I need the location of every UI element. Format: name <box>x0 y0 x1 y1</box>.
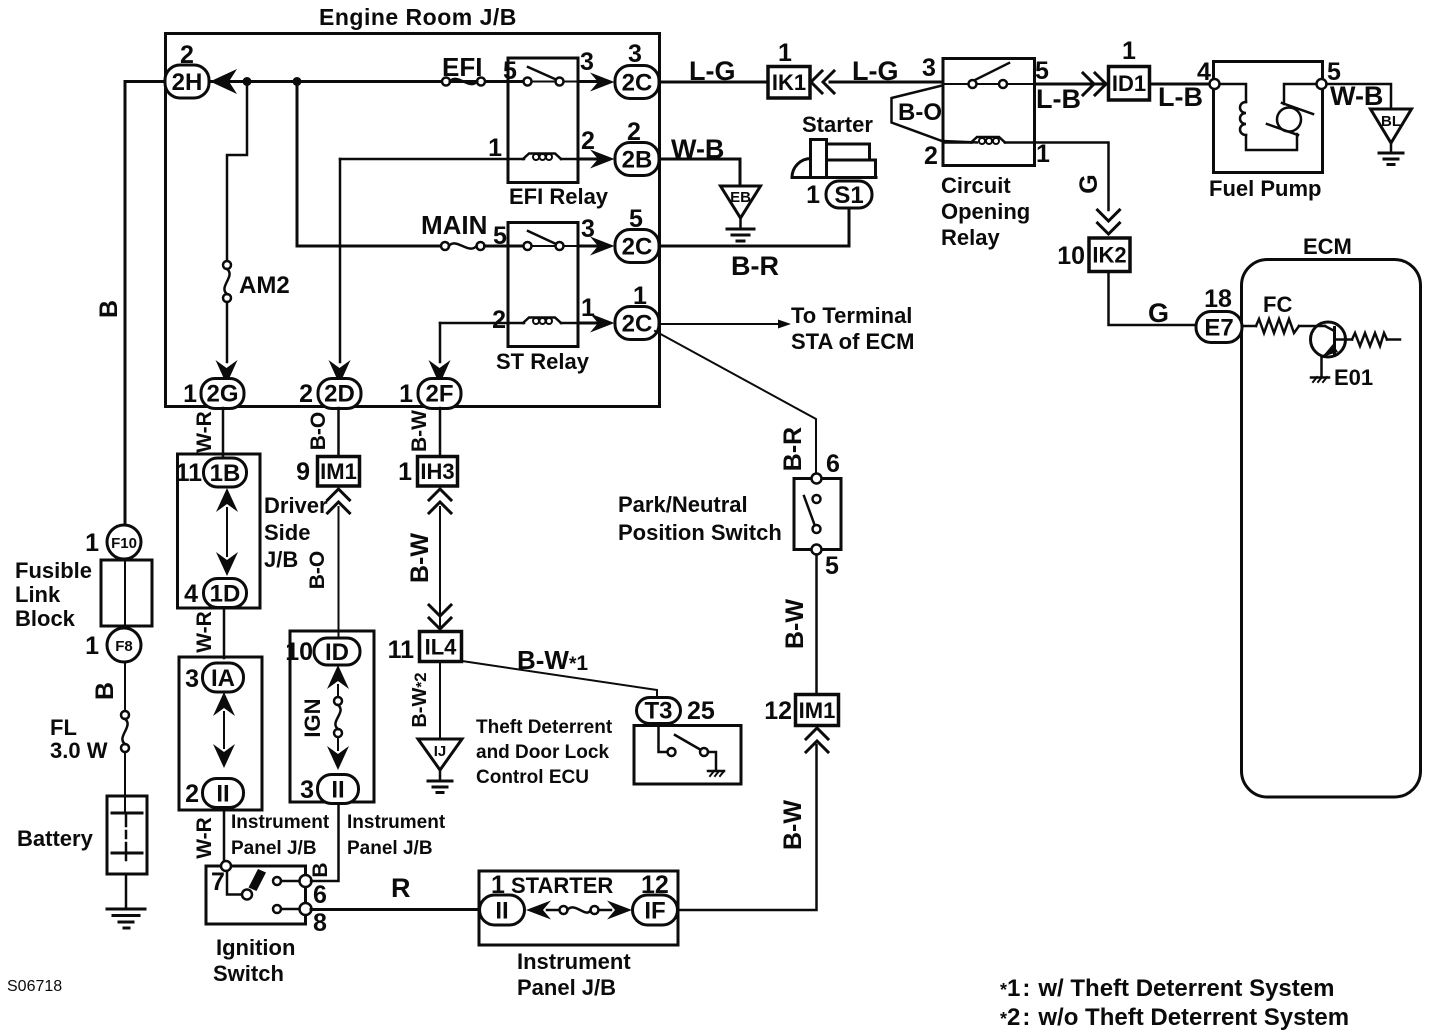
fuse MAIN <box>441 242 449 250</box>
wire G: IK2 to E7 <box>1109 272 1197 326</box>
connector ID1 <box>1109 67 1150 101</box>
svg-text:Position Switch: Position Switch <box>618 520 782 545</box>
pin 5 circle <box>1317 79 1327 89</box>
svg-text:1B: 1B <box>210 460 241 487</box>
svg-text:Circuit: Circuit <box>941 173 1011 198</box>
arrow into 2C <box>590 73 615 92</box>
svg-text:3: 3 <box>628 40 642 68</box>
ground (battery) <box>107 908 145 911</box>
svg-text:2F: 2F <box>425 381 453 408</box>
connector E7 <box>1196 312 1242 343</box>
ST relay coil wire pin2 <box>440 322 524 325</box>
svg-text:*2:w/o Theft Deterrent System: *2:w/o Theft Deterrent System <box>1000 1004 1349 1031</box>
chevrons into IK1 <box>811 71 822 93</box>
svg-text:2H: 2H <box>172 69 203 96</box>
svg-text:S06718: S06718 <box>7 978 62 995</box>
resistor FC <box>1242 325 1256 328</box>
driver side J/B box <box>178 454 261 608</box>
connector 2F <box>418 379 461 409</box>
wire FL to battery <box>124 752 126 813</box>
connector IA <box>203 663 244 692</box>
svg-text:II: II <box>216 781 229 808</box>
svg-text:3.0 W: 3.0 W <box>50 738 108 763</box>
svg-text:Theft Deterrent: Theft Deterrent <box>476 717 613 738</box>
svg-text:IM1: IM1 <box>320 459 357 484</box>
svg-text:B-W: B-W <box>779 800 807 850</box>
connector II (IGN box) <box>318 775 359 804</box>
connector IF <box>633 895 678 925</box>
svg-text:2: 2 <box>180 41 194 69</box>
EFI relay coil <box>523 154 561 160</box>
svg-text:EB: EB <box>730 189 751 206</box>
svg-text:B-W: B-W <box>781 599 809 649</box>
wire B-W*2: IL4 to IJ <box>439 662 441 739</box>
wire B-W: IH3 to IL4 <box>439 507 441 631</box>
svg-text:MAIN: MAIN <box>421 210 487 240</box>
svg-text:1: 1 <box>488 134 502 162</box>
svg-text:FC: FC <box>1263 292 1292 317</box>
wire B-R: 2C pin1 to park/neutral switch <box>655 331 816 473</box>
svg-text:ST Relay: ST Relay <box>496 349 590 374</box>
svg-text:ID1: ID1 <box>1112 71 1146 96</box>
svg-text:R: R <box>391 873 411 903</box>
ground IJ <box>418 739 462 770</box>
wire B-W: P/N switch to IM1 <box>815 555 818 696</box>
svg-text:L-G: L-G <box>689 56 736 86</box>
fuse IGN <box>334 697 342 705</box>
ground EB <box>721 186 761 218</box>
arrow into 2F <box>429 360 451 385</box>
svg-text:1: 1 <box>183 380 197 408</box>
wire B-W: 2F to IH3 <box>439 408 442 457</box>
wire L-B: COR pin5 to ID1 <box>1035 83 1109 86</box>
connector IL4 <box>420 632 462 662</box>
ignition contact 8 <box>273 905 281 913</box>
fusible link FL 3.0 W <box>121 711 129 719</box>
chevrons below IM1 <box>806 728 828 739</box>
svg-text:B-R: B-R <box>779 427 807 471</box>
COR coil <box>943 141 972 144</box>
svg-text:IM1: IM1 <box>799 698 836 723</box>
ground BL <box>1371 109 1412 143</box>
svg-text:W-R: W-R <box>193 411 216 453</box>
svg-text:Control ECU: Control ECU <box>476 767 589 788</box>
EFI relay switch <box>524 81 578 83</box>
svg-text:B-R: B-R <box>731 251 779 281</box>
svg-text:Instrument: Instrument <box>517 949 631 974</box>
svg-text:W-R: W-R <box>193 817 216 859</box>
wire B: left vertical from 2H to F10 <box>125 82 166 526</box>
svg-text:BL: BL <box>1381 113 1401 130</box>
svg-text:Instrument: Instrument <box>231 812 330 833</box>
svg-text:11: 11 <box>176 459 203 487</box>
svg-text:IGN: IGN <box>300 698 325 737</box>
connector 2D <box>318 379 361 409</box>
ignition key lever <box>227 871 242 895</box>
svg-text:5: 5 <box>1035 57 1049 85</box>
svg-text:Starter: Starter <box>802 112 873 137</box>
connector S1 <box>826 181 872 208</box>
connector T3 <box>637 698 681 724</box>
connector 2G <box>201 379 244 409</box>
connector II (starter box) <box>480 895 525 925</box>
svg-text:G: G <box>1075 174 1103 193</box>
wire: 2H row to EFI relay <box>209 80 524 83</box>
svg-text:1: 1 <box>85 529 99 557</box>
wire W-B from 2B <box>659 159 740 186</box>
connector 2C pin5 <box>615 230 659 263</box>
svg-text:B-W*1: B-W*1 <box>517 645 588 675</box>
theft deterrent ECU box <box>634 726 741 785</box>
svg-text:2C: 2C <box>622 70 653 97</box>
svg-text:IK2: IK2 <box>1092 243 1126 268</box>
svg-text:W-B: W-B <box>671 134 724 164</box>
svg-text:L-G: L-G <box>852 56 899 86</box>
svg-text:II: II <box>495 898 508 925</box>
svg-text:1: 1 <box>633 282 647 310</box>
wire: junction B down and MAIN row <box>297 82 441 247</box>
svg-text:Switch: Switch <box>213 961 284 986</box>
svg-text:STARTER: STARTER <box>511 873 613 898</box>
wire: ST coil pin2 down to 2F <box>439 323 442 362</box>
arrow into II (IGN box) <box>337 737 339 750</box>
svg-text:11: 11 <box>388 636 415 664</box>
arrow into 2D <box>329 360 351 385</box>
ST relay coil <box>523 318 561 324</box>
wire B: II (IGN) to ignition pin 6 <box>311 804 339 881</box>
svg-text:Opening: Opening <box>941 199 1030 224</box>
svg-text:Fuel Pump: Fuel Pump <box>1209 176 1321 201</box>
arrow into 2C pin1 <box>590 314 615 333</box>
svg-text:2B: 2B <box>622 147 653 174</box>
chevrons into IL4 <box>429 605 451 616</box>
svg-text:2: 2 <box>492 306 506 334</box>
svg-text:Side: Side <box>264 520 310 545</box>
connector 2C pin3 <box>615 66 659 99</box>
arrow into 2C pin5 <box>590 237 615 256</box>
svg-text:1: 1 <box>1122 37 1136 65</box>
wire battery to ground <box>125 874 128 909</box>
wire L-B: ID1 to fuel pump <box>1150 83 1214 86</box>
svg-text:2: 2 <box>627 118 641 146</box>
svg-text:EFI: EFI <box>442 52 482 82</box>
svg-text:5: 5 <box>629 205 643 233</box>
fuse AM2 <box>223 261 231 269</box>
wire AM2 to 2G <box>226 302 229 362</box>
svg-text:IK1: IK1 <box>772 70 806 95</box>
fuse F10 <box>107 525 141 559</box>
svg-text:EFI Relay: EFI Relay <box>509 184 609 209</box>
svg-text:8: 8 <box>313 909 327 937</box>
junction dot B <box>293 77 302 86</box>
theft ECU switch <box>659 724 668 752</box>
starter motor icon <box>792 159 811 178</box>
ST relay box <box>508 223 578 347</box>
svg-text:B: B <box>95 300 123 318</box>
svg-text:Battery: Battery <box>17 826 94 851</box>
wire L-G: relay pin3 to chevrons <box>830 81 943 84</box>
svg-text:1: 1 <box>399 380 413 408</box>
svg-text:Ignition: Ignition <box>216 935 295 960</box>
fuel pump box <box>1214 62 1323 173</box>
svg-text:25: 25 <box>687 697 715 725</box>
svg-text:E7: E7 <box>1204 315 1233 342</box>
svg-text:1: 1 <box>85 632 99 660</box>
svg-text:FL: FL <box>50 715 77 740</box>
instrument panel J/B box (ID-II) <box>290 631 374 802</box>
wire MAIN fuse to ST relay <box>485 245 525 248</box>
connector 1D <box>204 579 247 608</box>
svg-text:Block: Block <box>15 606 76 631</box>
instrument panel J/B starter box <box>479 871 678 945</box>
arrow into 2B <box>590 150 615 169</box>
svg-text:IL4: IL4 <box>425 635 458 660</box>
svg-text:IF: IF <box>644 898 665 925</box>
wire: STA arrow from 2C pin1 <box>659 323 778 325</box>
svg-text:7: 7 <box>211 868 225 896</box>
svg-text:L-B: L-B <box>1036 84 1081 114</box>
junction dot A <box>243 77 252 86</box>
svg-text:L-B: L-B <box>1158 82 1203 112</box>
connector IH3 <box>418 457 458 487</box>
connector 2B <box>615 143 659 176</box>
svg-text:2: 2 <box>185 780 199 808</box>
chevrons below IM1 (9) <box>328 489 350 500</box>
svg-text:Relay: Relay <box>941 225 1000 250</box>
wire B-W: IM1 down to starter row <box>678 745 817 910</box>
svg-text:ID: ID <box>325 639 349 666</box>
svg-text:and Door Lock: and Door Lock <box>476 742 609 763</box>
wire: junction A to AM2 to 2G <box>227 82 247 262</box>
wire W-R: II to ignition switch <box>223 808 226 863</box>
connector 1B <box>204 458 247 487</box>
svg-text:9: 9 <box>296 458 310 486</box>
svg-text:10: 10 <box>1057 242 1085 270</box>
svg-text:2G: 2G <box>206 381 238 408</box>
svg-text:AM2: AM2 <box>239 272 290 299</box>
connector IK2 <box>1089 238 1130 272</box>
svg-text:B: B <box>309 862 332 877</box>
svg-text:G: G <box>1148 298 1169 328</box>
wire: EFI coil pin1 down to 2D <box>339 159 342 362</box>
wire B-R from 2C pin5 to starter S1 <box>659 210 849 246</box>
fuse EFI <box>442 78 450 86</box>
arrow into 2G <box>216 360 238 385</box>
svg-text:2C: 2C <box>622 234 653 261</box>
svg-text:B-W: B-W <box>408 410 431 452</box>
svg-text:5: 5 <box>493 222 507 250</box>
svg-text:6: 6 <box>313 881 327 909</box>
wire B-O: 2D to IM1 <box>337 408 340 457</box>
svg-text:4: 4 <box>184 580 198 608</box>
ECM box <box>1242 260 1421 798</box>
svg-text:B-O: B-O <box>898 99 942 126</box>
EFI relay coil wire pin1 <box>340 158 524 161</box>
wire W-R: 2G to 1B <box>222 408 225 459</box>
svg-text:IH3: IH3 <box>420 459 454 484</box>
resistor (collector) <box>1335 338 1353 341</box>
park/neutral position switch box <box>794 479 841 550</box>
ignition contact 6 <box>273 877 281 885</box>
connector II (instrument panel) <box>203 779 244 808</box>
svg-text:Engine Room J/B: Engine Room J/B <box>319 4 517 30</box>
svg-text:12: 12 <box>764 697 792 725</box>
svg-text:5: 5 <box>503 57 517 85</box>
svg-text:18: 18 <box>1204 285 1232 313</box>
B-O tag <box>892 86 978 143</box>
svg-text:B-W: B-W <box>406 533 434 583</box>
arrows IA to II <box>213 692 235 716</box>
fuse F8 <box>107 628 141 662</box>
svg-text:10: 10 <box>285 638 313 666</box>
svg-text:W-R: W-R <box>193 611 216 653</box>
svg-text:3: 3 <box>922 54 936 82</box>
arrow into II <box>526 901 551 920</box>
svg-text:1D: 1D <box>210 581 241 608</box>
svg-text:Link: Link <box>15 582 61 607</box>
svg-text:6: 6 <box>826 450 840 478</box>
wire B-O: IM1 to ID <box>338 507 340 638</box>
svg-text:3: 3 <box>580 48 594 76</box>
svg-text:W-B: W-B <box>1330 81 1383 111</box>
svg-text:ECM: ECM <box>1303 234 1352 259</box>
EFI relay box <box>508 58 578 183</box>
Circuit Opening Relay box <box>943 59 1035 166</box>
COR switch <box>943 83 1034 85</box>
ignition switch box <box>206 866 306 924</box>
svg-text:B-W*2: B-W*2 <box>409 672 431 727</box>
svg-text:Instrument: Instrument <box>347 812 446 833</box>
svg-text:3: 3 <box>185 665 199 693</box>
svg-text:Fusible: Fusible <box>15 558 92 583</box>
svg-text:Panel J/B: Panel J/B <box>231 838 317 859</box>
svg-text:2D: 2D <box>324 381 355 408</box>
wire to 2C pin1 <box>578 322 598 325</box>
pin 4 circle <box>1210 79 1220 89</box>
svg-text:2: 2 <box>924 142 938 170</box>
svg-text:IJ: IJ <box>434 743 447 760</box>
arrow at 2H <box>210 69 237 94</box>
chevrons into ID1 <box>1083 73 1094 95</box>
chevrons into IK2 <box>1098 210 1120 221</box>
svg-text:Driver: Driver <box>264 493 328 518</box>
arrows 1B to 1D <box>216 488 238 512</box>
svg-text:*1:w/ Theft Deterrent System: *1:w/ Theft Deterrent System <box>1000 975 1334 1002</box>
instrument panel J/B box (IA-II) <box>179 657 262 810</box>
wire L-G: 2C pin3 to IK1 <box>659 81 768 84</box>
svg-text:F10: F10 <box>111 535 137 552</box>
fuel pump motor interior <box>1220 84 1246 102</box>
connector IM1 (9) <box>318 457 360 487</box>
svg-text:To Terminal: To Terminal <box>791 303 912 328</box>
svg-text:2C: 2C <box>622 311 653 338</box>
svg-text:Park/Neutral: Park/Neutral <box>618 492 748 517</box>
svg-text:Panel J/B: Panel J/B <box>347 838 433 859</box>
connector ID <box>314 638 360 665</box>
connector 2C pin1 <box>615 307 659 340</box>
svg-text:T3: T3 <box>644 698 672 725</box>
wire relay to 2C <box>578 80 598 83</box>
svg-text:1: 1 <box>778 39 792 67</box>
transistor Q (ECM) <box>1311 322 1346 357</box>
fusible link block <box>101 560 152 626</box>
svg-text:B-O: B-O <box>307 412 330 451</box>
svg-text:1: 1 <box>398 458 412 486</box>
svg-text:IA: IA <box>211 665 235 692</box>
svg-text:STA of ECM: STA of ECM <box>791 329 914 354</box>
svg-text:1: 1 <box>1036 140 1050 168</box>
wire relay pin2 to 2B <box>578 158 598 161</box>
connector IK1 <box>768 67 810 99</box>
svg-text:J/B: J/B <box>264 547 298 572</box>
chevrons below IH3 <box>429 489 451 500</box>
svg-text:F8: F8 <box>115 638 133 655</box>
svg-text:5: 5 <box>825 552 839 580</box>
svg-text:B-O: B-O <box>306 551 329 590</box>
Engine Room J/B box <box>166 34 660 407</box>
wire W-R: 1D to IA <box>223 608 226 659</box>
svg-text:S1: S1 <box>834 182 863 209</box>
wire G: COR pin1 to IK2 <box>1035 143 1109 211</box>
svg-text:Panel J/B: Panel J/B <box>517 975 616 1000</box>
wire R: ignition pin 8 to starter box <box>311 908 480 911</box>
arrow into IF <box>599 909 612 912</box>
connector 2H <box>165 65 209 98</box>
wire W-B: fuel pump to BL <box>1327 84 1392 109</box>
svg-text:B: B <box>91 682 119 700</box>
svg-text:1: 1 <box>806 181 820 209</box>
svg-text:3: 3 <box>300 776 314 804</box>
wire to 2C pin5 <box>578 245 598 248</box>
svg-text:II: II <box>331 777 344 804</box>
wire F8 to FL <box>124 662 126 711</box>
pin 7 circle <box>221 861 231 871</box>
wire F10 to F8 <box>124 559 126 628</box>
wire B-W*1: IL4 to T3 <box>462 661 657 698</box>
svg-text:E01: E01 <box>1334 365 1373 390</box>
fuse STARTER <box>560 906 568 914</box>
arrow below ID <box>327 665 349 689</box>
ground E01 <box>1320 357 1323 377</box>
battery <box>107 796 147 874</box>
svg-text:1: 1 <box>581 294 595 322</box>
P/N switch contacts <box>812 474 822 484</box>
svg-text:2: 2 <box>299 380 313 408</box>
connector IM1 (12) <box>796 695 839 726</box>
ST relay switch <box>524 245 578 247</box>
